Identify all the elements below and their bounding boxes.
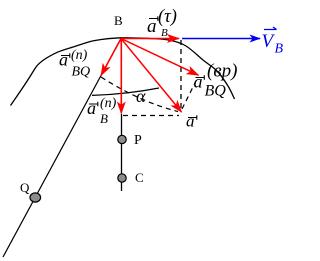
svg-text:B: B: [100, 111, 108, 126]
vector a_BQ_vr (red, from B down-right): [121, 39, 199, 76]
svg-text:a: a: [186, 112, 195, 131]
dashed horizontal construction line (parallelogram): [123, 115, 179, 117]
svg-text:P: P: [134, 133, 142, 148]
point Q: [30, 193, 41, 202]
dashed angle curve alpha (from tip of a_BQ_n to tip of a): [101, 77, 178, 112]
curve: trajectory arc through B: [11, 38, 235, 106]
dashed construction line from a to tip of a_BQ_vr: [182, 77, 198, 109]
vector a_B_tau (red, horizontal from B): [121, 38, 179, 40]
line BQ (straight line from B through Q to lower-left): [3, 39, 121, 258]
svg-text:C: C: [135, 170, 144, 185]
label a (total acceleration): [186, 112, 197, 131]
dashed vertical construction line (parallelogram): [180, 40, 182, 110]
label a_B_n: [87, 96, 117, 126]
svg-text:V: V: [262, 31, 276, 52]
svg-text:α: α: [136, 86, 146, 106]
solid angle arc between BQ line and vector a: [92, 88, 159, 95]
svg-text:B: B: [114, 13, 123, 28]
svg-text:(τ): (τ): [158, 7, 177, 27]
svg-text:B: B: [275, 42, 284, 57]
point C: [118, 174, 126, 182]
svg-text:(n): (n): [71, 48, 88, 63]
label a_B_tau: [147, 7, 177, 39]
svg-text:B: B: [161, 27, 168, 39]
vector a total (red, from B to point a): [121, 39, 182, 113]
svg-text:(вр): (вр): [207, 61, 237, 82]
wire: vertical line below B through P and C: [121, 114, 123, 191]
svg-text:a: a: [59, 50, 68, 70]
label a_BQ_n: [59, 48, 90, 80]
label V_B (blue): [262, 27, 284, 57]
svg-text:a: a: [194, 72, 203, 92]
svg-text:BQ: BQ: [72, 65, 91, 80]
vector a_BQ_n (red, from B toward Q): [101, 39, 121, 76]
vector a_B_n (red, straight down from B): [120, 39, 122, 114]
vector V_B (blue velocity): [182, 38, 260, 40]
label a_BQ_vr: [194, 61, 238, 100]
svg-text:BQ: BQ: [205, 83, 227, 100]
point P: [118, 135, 126, 143]
svg-text:Q: Q: [20, 180, 30, 195]
svg-text:a: a: [87, 98, 96, 118]
svg-text:(n): (n): [100, 96, 117, 111]
